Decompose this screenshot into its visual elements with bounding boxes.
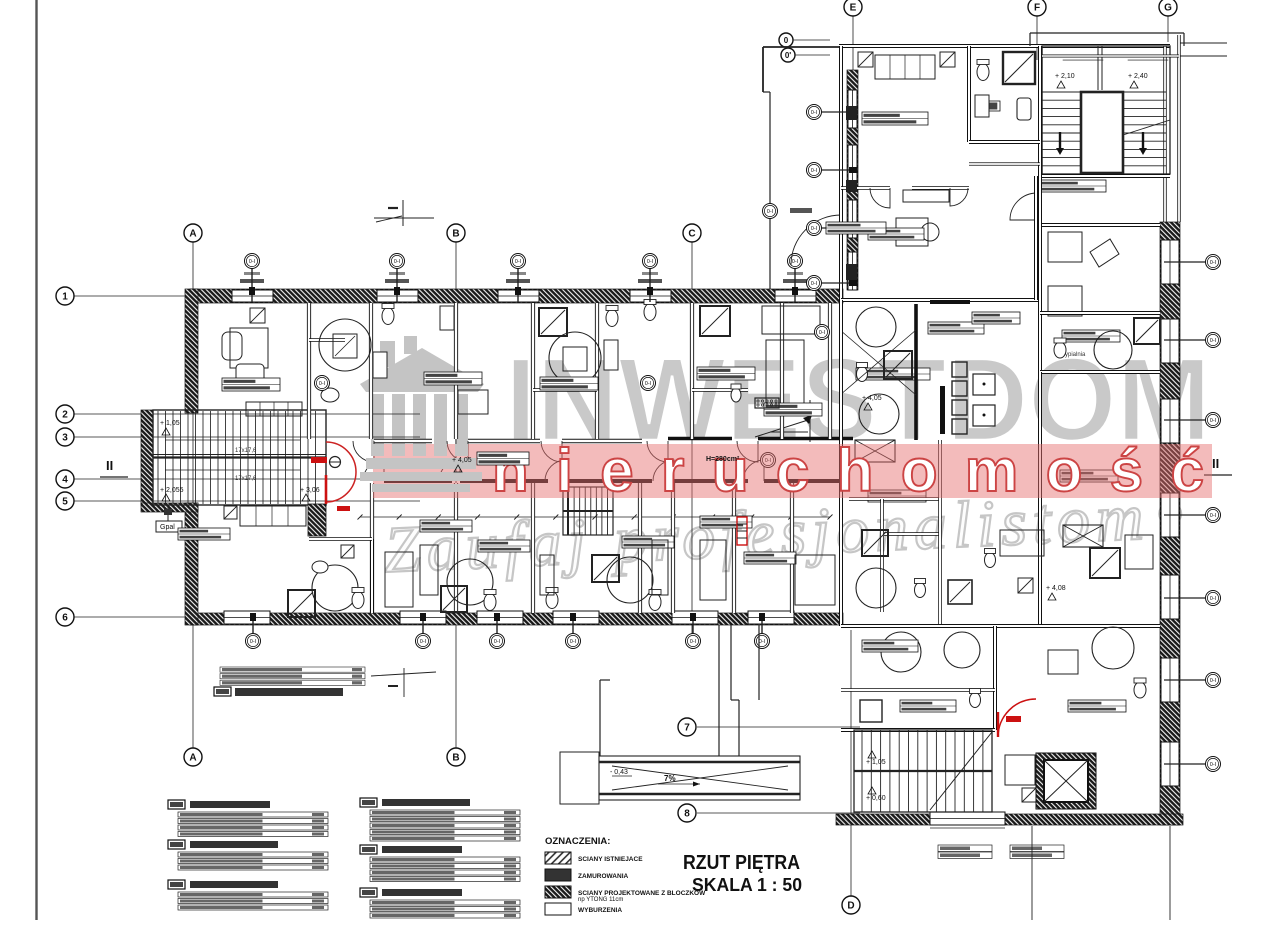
grid axis 4: [74, 478, 420, 480]
svg-text:np YTONG 11cm: np YTONG 11cm: [578, 897, 623, 903]
bed room B upper: [762, 306, 820, 334]
stairwell bottom wall: [1042, 174, 1170, 178]
svg-text:+ 2,10: + 2,10: [1055, 73, 1075, 80]
svg-text:+ 2,40: + 2,40: [1128, 73, 1148, 80]
elevator bottom: [1036, 753, 1096, 809]
svg-text:+ 2,055: + 2,055: [160, 487, 184, 494]
bottom small tables: [938, 845, 992, 852]
grid axis G: [1167, 16, 1169, 42]
svg-text:+ 0,60: + 0,60: [866, 795, 886, 802]
lower sofa entry room: [240, 506, 306, 526]
svg-text:0-I: 0-I: [647, 259, 654, 265]
left wing bottom exterior wall: [190, 613, 843, 625]
ramp left platform: [560, 752, 599, 804]
corridor door arcs upper: [353, 441, 374, 462]
legend table L2: [168, 840, 328, 870]
bottom stairwell right wing: [854, 730, 992, 812]
red main entry half-circle door: [326, 442, 356, 502]
lower bathroom circle 3: [607, 557, 653, 603]
upper bathroom circle 2: [549, 332, 601, 384]
middle bathroom right: [1040, 311, 1160, 315]
lower right apartment walls: [841, 624, 1160, 628]
red demolition mark corridor junction: [737, 517, 747, 545]
svg-text:4: 4: [62, 475, 68, 486]
svg-text:SCIANY ISTNIEJACE: SCIANY ISTNIEJACE: [578, 856, 643, 863]
shaft hatch block below red door: [308, 504, 326, 536]
svg-text:+ 4,08: + 4,08: [1046, 585, 1066, 592]
svg-text:H=280cm²: H=280cm²: [706, 456, 740, 463]
svg-text:0-I: 0-I: [811, 226, 818, 232]
ramp: [599, 756, 800, 800]
watermark logo building: [360, 336, 484, 492]
svg-text:0-I: 0-I: [1210, 678, 1217, 684]
grid axis E: [852, 16, 854, 120]
svg-text:0-I: 0-I: [249, 259, 256, 265]
middle apartment lower bathroom walls: [849, 497, 940, 501]
watermark script Zaufaj profesjonalistom: [382, 479, 1182, 587]
extra fixtures middle column: [985, 553, 996, 568]
legend table M2: [360, 845, 520, 882]
svg-text:+ 1,05: + 1,05: [866, 759, 886, 766]
door arc to stair corridor: [1010, 193, 1037, 220]
top bathroom fixtures: [1003, 52, 1035, 84]
lower bathroom circle 2: [447, 559, 493, 605]
svg-text:7%: 7%: [664, 774, 676, 783]
upper rooms partitions: [307, 303, 311, 439]
dark blocks on E wall: [846, 106, 857, 120]
grid axis 6: [74, 616, 192, 618]
east wall ref circles: [1164, 261, 1205, 263]
svg-text:0-I: 0-I: [1210, 260, 1217, 266]
svg-text:0-I: 0-I: [690, 639, 697, 645]
svg-text:0-I: 0-I: [420, 639, 427, 645]
lower rooms partitions: [370, 483, 374, 613]
svg-text:0: 0: [784, 36, 789, 45]
svg-text:SCIANY PROJEKTOWANE Z BLOCZKOW: SCIANY PROJEKTOWANE Z BLOCZKOW: [578, 890, 706, 897]
svg-text:B: B: [452, 229, 459, 240]
svg-text:0-I: 0-I: [515, 259, 522, 265]
Gpal label: [156, 521, 182, 532]
svg-text:SKALA 1 : 50: SKALA 1 : 50: [692, 875, 802, 895]
kitchen wall center: [914, 304, 918, 440]
svg-text:+ 4,05: + 4,05: [452, 457, 472, 464]
svg-text:0-I: 0-I: [250, 639, 257, 645]
svg-text:E: E: [850, 3, 857, 14]
svg-text:0-I: 0-I: [811, 110, 818, 116]
radiator block corridor: [755, 398, 779, 408]
legend new-wall note upper: [220, 667, 365, 672]
top right stairwell: [1042, 46, 1170, 174]
svg-text:G: G: [1164, 3, 1172, 14]
red door bottom right: [998, 699, 1036, 737]
crossbox wardrobes: [855, 440, 895, 462]
kitchen blocks: [952, 362, 967, 377]
NE corner extension lines: [1180, 42, 1227, 44]
grid axis 1: [74, 295, 192, 297]
svg-text:0-I: 0-I: [767, 209, 774, 215]
svg-text:0-I: 0-I: [1210, 513, 1217, 519]
grid axis 3: [74, 436, 420, 438]
right wing west wall upper: [839, 46, 843, 300]
corridor bottom wall: [384, 479, 452, 483]
svg-text:B: B: [452, 753, 459, 764]
svg-text:Gpal: Gpal: [160, 524, 175, 531]
legend table M3: [360, 888, 520, 918]
lower middle small stairs: [563, 487, 613, 535]
svg-text:0-I: 0-I: [1210, 338, 1217, 344]
courtyard door arc: [791, 215, 841, 265]
svg-text:A: A: [189, 229, 196, 240]
window ref circles bottom wall: [252, 618, 254, 634]
lower bathroom wall: [370, 539, 374, 613]
svg-text:C: C: [688, 229, 695, 240]
svg-text:3: 3: [62, 433, 68, 444]
beds middle right room: [1048, 232, 1082, 262]
svg-text:II: II: [106, 458, 113, 473]
wc sink fixtures upper band: [382, 308, 394, 325]
right wing east exterior wall: [1163, 46, 1166, 222]
upper shower square 1: [539, 308, 567, 336]
legend table M1: [360, 798, 520, 841]
top apartment inner wall: [841, 186, 890, 190]
svg-text:0-I: 0-I: [394, 259, 401, 265]
door handle circle main entry: [330, 457, 341, 468]
upper bathroom sub walls: [309, 338, 345, 342]
armchair bottom right room: [1005, 755, 1035, 785]
grid axis 2: [74, 413, 420, 415]
lower beds: [385, 552, 413, 607]
grid axis B: [455, 242, 457, 748]
grid axis C: [691, 242, 693, 640]
svg-text:1: 1: [62, 292, 68, 303]
table top apartment: [896, 218, 928, 246]
svg-text:ZAMUROWANIA: ZAMUROWANIA: [578, 873, 628, 880]
stairwell top wall inner line: [1042, 55, 1179, 58]
svg-text:0-I: 0-I: [1210, 762, 1217, 768]
middle lower bathroom circles: [856, 568, 896, 608]
svg-text:7: 7: [684, 723, 690, 734]
E axis window wall: [847, 70, 858, 290]
left wing top exterior wall: [190, 289, 843, 303]
svg-text:D: D: [847, 901, 854, 912]
svg-text:0-I: 0-I: [819, 330, 826, 336]
north arrow mark: [755, 420, 808, 437]
svg-text:0-I: 0-I: [494, 639, 501, 645]
stairwell upper divider: [1097, 46, 1099, 90]
left wing left exterior wall: [185, 289, 198, 413]
svg-text:17x17,6: 17x17,6: [235, 448, 257, 454]
wall below top apartment: [841, 298, 1040, 302]
right wing bottom wall: [836, 814, 1183, 825]
watermark logo over band: [360, 336, 484, 492]
armchairs room A1: [230, 328, 268, 368]
room labels upper band: [222, 378, 280, 391]
svg-text:0-I: 0-I: [1210, 596, 1217, 602]
west wall ref circles: [822, 111, 858, 113]
upper bathroom circle 1: [319, 319, 371, 371]
room labels lower band: [178, 528, 230, 540]
svg-text:RZUT PIĘTRA: RZUT PIĘTRA: [683, 852, 800, 874]
svg-text:5: 5: [62, 497, 68, 508]
svg-text:2: 2: [62, 410, 68, 421]
grid axis 8: [697, 812, 860, 814]
svg-text:0-I: 0-I: [645, 381, 652, 387]
stair arrows and texts: [165, 469, 300, 471]
corridor to ramp connector lines: [718, 625, 720, 756]
stairwell arrows: [1059, 132, 1061, 152]
upper shower square 2: [700, 306, 730, 336]
bed lower right: [1000, 530, 1044, 556]
corridor top wall: [374, 439, 432, 444]
watermark pink band: [373, 444, 1212, 498]
grid axis F: [1036, 16, 1038, 60]
svg-text:II: II: [1212, 456, 1219, 471]
middle hall label + level mark: [826, 222, 886, 234]
lower shower square 1: [288, 590, 315, 617]
svg-text:0-I: 0-I: [792, 259, 799, 265]
svg-text:+ 1,05: + 1,05: [160, 420, 180, 427]
sofa room A1: [246, 402, 302, 416]
apartment divider top right: [1038, 46, 1042, 176]
svg-text:0-I: 0-I: [759, 639, 766, 645]
corridor label on band: [477, 452, 529, 465]
wc lower band: [352, 592, 364, 609]
lower extension lines: [1031, 826, 1033, 920]
grid axis 5: [74, 500, 420, 502]
top apartment bathroom walls: [967, 46, 971, 142]
svg-text:0-I: 0-I: [1210, 418, 1217, 424]
legend table L3: [168, 880, 328, 910]
svg-text:17x17,6: 17x17,6: [235, 476, 257, 482]
sheet edge line: [35, 0, 37, 920]
bathroom mid-left: [856, 307, 896, 347]
svg-text:0-I: 0-I: [570, 639, 577, 645]
svg-text:A: A: [189, 753, 196, 764]
corridor dimension chain: [360, 516, 830, 518]
svg-text:+ 4,05: + 4,05: [862, 395, 882, 402]
courtyard outline: [763, 46, 841, 48]
svg-text:WYBURZENIA: WYBURZENIA: [578, 907, 622, 914]
grid axis A: [192, 242, 194, 748]
labels top apartment: [862, 112, 928, 125]
laundry X lines: [840, 330, 916, 395]
center corridor walls: [839, 300, 843, 626]
svg-text:+ 3,06: + 3,06: [300, 487, 320, 494]
shaft solid black: [940, 386, 945, 434]
detail benchmark mark right of note: [371, 672, 436, 676]
window ref circles top wall: [251, 268, 253, 302]
seat bench top apartment: [903, 190, 949, 202]
svg-text:0': 0': [785, 51, 791, 60]
grid axis D: [850, 630, 852, 896]
svg-text:6: 6: [62, 613, 68, 624]
lower bathroom circle 1: [312, 565, 358, 611]
labels center column: [868, 490, 926, 502]
corridor door arcs lower: [363, 460, 384, 481]
elevator top: [1081, 92, 1123, 173]
svg-text:8: 8: [684, 809, 690, 820]
svg-text:0-I: 0-I: [811, 281, 818, 287]
svg-text:OZNACZENIA:: OZNACZENIA:: [545, 836, 610, 847]
desk chairs room upper mid: [440, 306, 454, 330]
mid wall ref circles: [315, 376, 330, 391]
towel rail bathroom: [1017, 98, 1031, 120]
grid axis 0: [779, 33, 793, 47]
extra wardrobes lower band left wing: [420, 545, 438, 595]
svg-text:F: F: [1034, 3, 1040, 14]
left staircase enclosure: [141, 410, 153, 505]
benchmark symbol upper middle: [374, 217, 434, 219]
middle right room top wall: [1040, 223, 1160, 227]
svg-text:0-I: 0-I: [319, 381, 326, 387]
svg-text:- 0,43: - 0,43: [610, 769, 628, 776]
right wing top wall: [839, 44, 1170, 48]
lower right bathroom: [1092, 627, 1134, 669]
svg-text:0-I: 0-I: [811, 168, 818, 174]
sofa top apartment: [875, 55, 935, 79]
grid axis 7: [697, 726, 860, 728]
legend table L1: [168, 800, 328, 837]
dim labels top: [240, 279, 264, 283]
stairwell landing label: [1040, 180, 1106, 192]
